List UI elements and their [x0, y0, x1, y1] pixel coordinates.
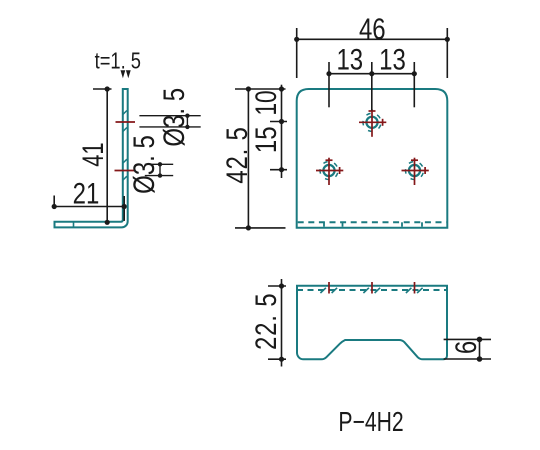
dimension 42.5 [235, 89, 286, 228]
dimension 21 [54, 196, 124, 221]
svg-text:46: 46 [359, 11, 386, 45]
dimension 13 13 [329, 62, 414, 111]
dimension 6 [444, 339, 491, 359]
svg-text:15: 15 [248, 126, 282, 153]
svg-text:Ø3. 5: Ø3. 5 [156, 88, 190, 147]
thickness leader arrow left [121, 70, 126, 78]
svg-text:6: 6 [448, 341, 482, 354]
hidden notch tick 2 [342, 222, 344, 226]
svg-text:10: 10 [249, 90, 283, 115]
hole edge tick lower hole top [123, 159, 127, 163]
svg-text:21: 21 [73, 176, 100, 210]
hole lower-left (front view) [316, 158, 343, 185]
hidden notch tick 1 [323, 222, 325, 226]
svg-text:t=1. 5: t=1. 5 [95, 48, 141, 74]
hole edge tick upper hole bottom [123, 128, 127, 132]
hole edge tick lower hole bottom [123, 176, 127, 180]
dimension 46 [297, 28, 448, 78]
hidden flange line (dashed) [298, 221, 447, 223]
centerline upper hole (side view) [116, 121, 136, 123]
hole lower-right (front view) [402, 158, 429, 185]
hidden notch tick 3 [401, 222, 403, 226]
dimension 10 and 15 [270, 85, 287, 178]
dimension phi3.5 lower [145, 164, 173, 175]
hidden hole edge marks bottom view [320, 288, 422, 293]
bottom view hidden line (dashed) [297, 289, 447, 291]
bottom view outline [297, 286, 447, 360]
dimension 22.5 [268, 279, 286, 367]
hole edge tick upper hole top [123, 111, 127, 115]
svg-text:22. 5: 22. 5 [248, 293, 282, 350]
side view L-profile outline [55, 89, 128, 227]
svg-text:13: 13 [379, 42, 406, 76]
centerline ticks bottom view (red) [329, 282, 415, 294]
hidden notch tick 4 [421, 222, 423, 226]
svg-text:41: 41 [76, 142, 110, 166]
dimension phi3.5 upper [139, 116, 200, 127]
svg-text:Ø3. 5: Ø3. 5 [126, 135, 160, 194]
dimension 41 [93, 89, 112, 222]
joint tick on bottom flange [73, 222, 75, 228]
svg-text:P−4H2: P−4H2 [338, 407, 403, 437]
thickness leader arrow right [126, 70, 131, 78]
svg-text:13: 13 [336, 42, 363, 76]
centerline lower hole (side view) [115, 170, 136, 172]
front view plate outline [297, 89, 448, 228]
hole top (front view) [359, 110, 386, 137]
